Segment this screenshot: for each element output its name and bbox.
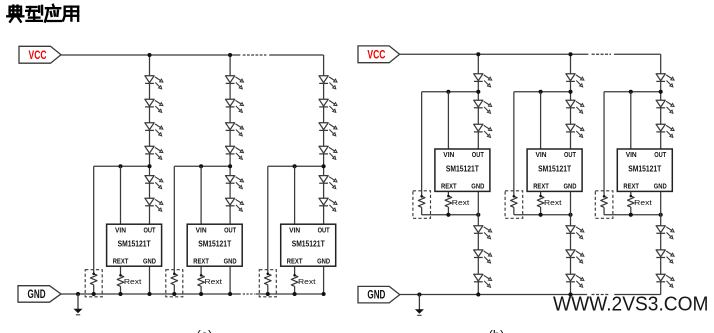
svg-text:OUT: OUT	[318, 225, 330, 234]
svg-text:SM15121T: SM15121T	[292, 239, 326, 249]
svg-text:VIN: VIN	[536, 150, 547, 159]
svg-text:GND: GND	[564, 182, 577, 191]
svg-text:VCC: VCC	[29, 50, 47, 62]
svg-text:Rext: Rext	[124, 277, 142, 286]
svg-text:Rext: Rext	[205, 277, 223, 286]
svg-text:(b): (b)	[489, 328, 505, 333]
svg-text:OUT: OUT	[564, 150, 576, 159]
svg-text:OUT: OUT	[654, 150, 666, 159]
svg-text:Rext: Rext	[544, 198, 562, 207]
svg-text:REXT: REXT	[193, 257, 209, 266]
svg-text:SM15121T: SM15121T	[118, 239, 152, 249]
svg-text:Rext: Rext	[298, 277, 316, 286]
svg-text:VIN: VIN	[289, 225, 300, 234]
svg-text:Rext: Rext	[634, 198, 652, 207]
svg-text:OUT: OUT	[224, 225, 236, 234]
svg-text:GND: GND	[367, 290, 385, 302]
svg-text:GND: GND	[28, 289, 46, 301]
svg-text:VIN: VIN	[115, 225, 126, 234]
svg-text:SM15121T: SM15121T	[628, 163, 662, 173]
svg-text:VIN: VIN	[196, 225, 207, 234]
svg-text:GND: GND	[224, 257, 237, 266]
svg-text:GND: GND	[317, 257, 330, 266]
svg-text:GND: GND	[654, 182, 667, 191]
svg-text:GND: GND	[143, 257, 156, 266]
svg-text:SM15121T: SM15121T	[446, 163, 480, 173]
svg-text:OUT: OUT	[144, 225, 156, 234]
svg-text:REXT: REXT	[533, 182, 549, 191]
svg-text:REXT: REXT	[441, 182, 457, 191]
svg-text:OUT: OUT	[472, 150, 484, 159]
svg-text:REXT: REXT	[113, 257, 129, 266]
svg-text:SM15121T: SM15121T	[538, 163, 572, 173]
svg-text:REXT: REXT	[287, 257, 303, 266]
svg-text:VIN: VIN	[443, 150, 454, 159]
svg-text:REXT: REXT	[623, 182, 639, 191]
svg-text:VCC: VCC	[367, 49, 385, 61]
svg-text:VIN: VIN	[626, 150, 637, 159]
svg-text:(a): (a)	[197, 328, 213, 333]
svg-text:WWW.2VS3.COM: WWW.2VS3.COM	[553, 293, 709, 316]
svg-text:SM15121T: SM15121T	[198, 239, 232, 249]
svg-text:GND: GND	[471, 182, 484, 191]
svg-text:Rext: Rext	[452, 198, 470, 207]
